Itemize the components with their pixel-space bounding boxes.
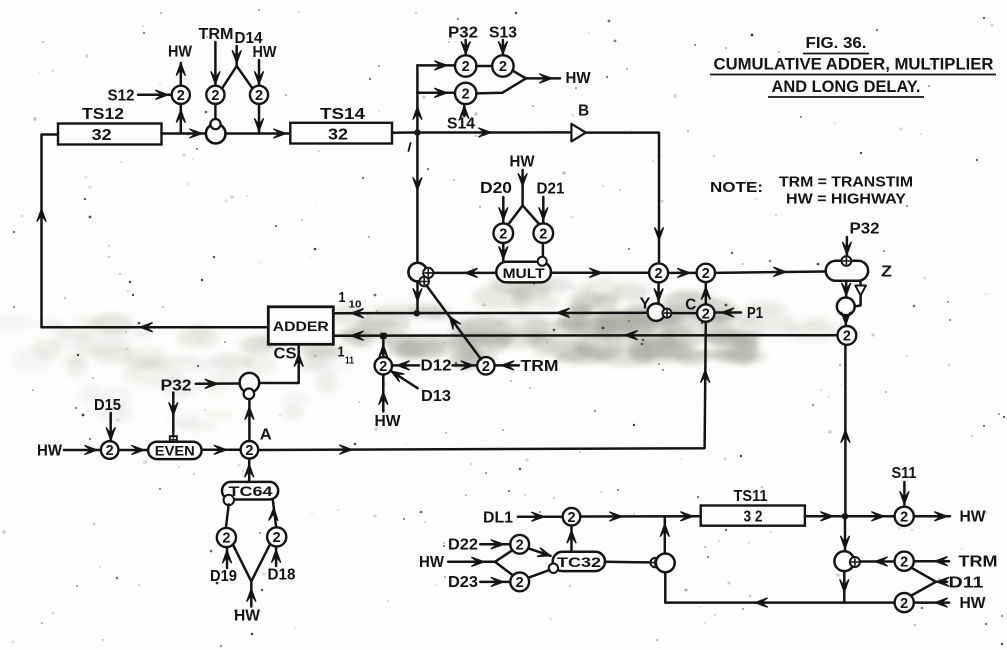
svg-text:2: 2: [655, 266, 663, 282]
svg-text:1: 1: [339, 289, 346, 306]
svg-text:NOTE:: NOTE:: [710, 179, 763, 196]
label DL1: [483, 510, 513, 527]
wire TC64 to A gate: [245, 459, 254, 482]
svg-text:2: 2: [255, 88, 263, 104]
label D15: [94, 397, 121, 414]
svg-text:TS14: TS14: [320, 106, 365, 123]
wire P32 down: [461, 40, 470, 55]
label P32 (top): [448, 25, 478, 42]
gate 2 (D22): [510, 535, 529, 554]
label HW (TS11 out): [960, 509, 987, 526]
wire P1 into C: [715, 308, 742, 317]
wire HW into D15 gate: [64, 446, 101, 455]
svg-text:2: 2: [900, 596, 908, 612]
label P32 (CS): [161, 378, 192, 395]
small circle on TC32 bottom: [549, 564, 558, 573]
gate 2 (TRM/D14): [206, 86, 224, 104]
label S12 and wire: [108, 88, 172, 105]
wire P32 branch down to EVEN: [169, 393, 178, 437]
wire TS11 out to junction: [805, 512, 842, 521]
label D22 and wire: [448, 537, 510, 554]
label P1: [747, 305, 763, 322]
wire junction up to TS11 input: [660, 516, 669, 553]
delay line TS14: [290, 106, 392, 144]
svg-text:HW: HW: [234, 608, 261, 625]
gate 2 (D20): [494, 223, 514, 243]
adder junction circle (TS12 row): [206, 124, 226, 144]
delay line TS11: [701, 488, 805, 526]
junction dot (TS11 out): [842, 513, 849, 520]
wire MULT to B gate (right): [551, 268, 649, 277]
svg-text:2: 2: [843, 329, 851, 345]
wire S13 gate to HW merge: [513, 71, 561, 83]
wire bottom-right junction down: [840, 571, 849, 603]
wire D22 gate to TC32: [528, 548, 550, 557]
wire CS into ADDER: [259, 344, 303, 383]
title line 2: [710, 56, 996, 75]
wire D14 gate to main line: [255, 104, 264, 134]
wire Z triangle branch: [855, 281, 866, 307]
junction circle (P32/CS): [240, 373, 260, 393]
label HW (TC32) and fork: [419, 551, 512, 575]
svg-text:2: 2: [900, 510, 908, 526]
label D13 and wire: [391, 371, 451, 405]
svg-text:FIG. 36.: FIG. 36.: [806, 35, 867, 52]
svg-text:TC32: TC32: [557, 555, 601, 570]
label HW (below D12 gate): [375, 413, 402, 430]
wire S12 gate to HW out: [176, 63, 185, 86]
svg-text:1: 1: [338, 344, 345, 361]
wire C down / A line corner: [258, 322, 709, 454]
gate 2 (Z out): [838, 326, 857, 345]
wire TRM gate to small circle: [214, 104, 217, 119]
svg-text:MULT: MULT: [503, 265, 545, 281]
wire adder junction to TS14: [226, 129, 291, 138]
svg-text:HW: HW: [960, 595, 987, 612]
wire mixer down to I10 line: [413, 282, 422, 310]
gate 2 (D18): [267, 527, 286, 546]
svg-text:2: 2: [222, 531, 230, 547]
svg-text:D20: D20: [480, 180, 512, 197]
label D23 and wire: [448, 574, 510, 591]
amplifier B triangle: [571, 124, 585, 142]
mixer junction circle (centre): [408, 263, 427, 282]
svg-text:D22: D22: [448, 537, 478, 554]
wire EVEN to A gate: [202, 445, 241, 454]
wire between P32 and S13 gates: [476, 65, 492, 68]
junction dot (TS14 out): [414, 129, 421, 136]
wire B to right corner and down: [586, 133, 664, 264]
label D18 and wire: [268, 548, 296, 584]
svg-text:AND LONG DELAY.: AND LONG DELAY.: [772, 78, 921, 96]
wire DL1 gate to TS11: [580, 512, 700, 521]
wire HW up into gate: [379, 375, 388, 412]
svg-text:HW = HIGHWAY: HW = HIGHWAY: [786, 191, 906, 208]
svg-text:2: 2: [482, 359, 490, 375]
label D11 and fork: [912, 568, 983, 595]
wire D15 down: [106, 413, 115, 442]
wire DL1 into gate: [518, 512, 563, 521]
gate 2 (D15): [101, 441, 119, 459]
wire TRM in: [914, 557, 949, 566]
small circle on TC64 bottom: [224, 495, 234, 505]
wire TS11 junction down: [841, 520, 850, 552]
wire junction up to branch corner: [413, 65, 422, 129]
label P32 (Z): [850, 221, 880, 238]
svg-text:HW: HW: [168, 44, 193, 61]
svg-text:TRM: TRM: [959, 554, 998, 571]
note: [710, 174, 913, 208]
junction circle Y: [648, 304, 665, 321]
wire D14 fork: [222, 46, 252, 88]
label TRM (bottom): [959, 554, 998, 571]
svg-text:C: C: [685, 297, 696, 314]
svg-text:2: 2: [106, 443, 114, 459]
junction dot on I10 line: [414, 310, 421, 317]
wire D21 gate to MULT small circle: [542, 243, 545, 257]
wire I11 from Z gate to ADDER: [333, 331, 837, 340]
wire S11 gate to HW: [914, 512, 950, 521]
gate 2 (DL1): [563, 508, 581, 526]
svg-text:HW: HW: [960, 509, 987, 526]
wire P32 down to Z: [843, 237, 852, 256]
wire junction to B amplifier: [421, 128, 572, 137]
svg-text:P1: P1: [747, 305, 763, 322]
svg-text:HW: HW: [510, 154, 536, 171]
label HW (bottom right): [960, 595, 987, 612]
wire HW in (bottom): [914, 598, 949, 607]
gate 2 (D21): [534, 223, 554, 243]
svg-text:2: 2: [273, 530, 281, 546]
wire TS14 to junction: [392, 131, 414, 134]
wire second branch to S14 gate: [417, 88, 455, 97]
wire junction down to mixer circle: [413, 136, 422, 263]
gate 2 (S12): [172, 86, 190, 104]
wire TC32 to DL1 gate: [567, 526, 576, 552]
svg-text:TS11: TS11: [734, 488, 768, 505]
svg-text:11: 11: [345, 355, 354, 367]
wire S14 gate merge: [476, 78, 526, 93]
wire D21 down: [539, 197, 548, 223]
svg-text:TRM: TRM: [199, 26, 234, 43]
gate 2 (P32 top): [455, 55, 476, 76]
svg-text:ADDER: ADDER: [273, 318, 329, 334]
wire B gate to second gate: [668, 269, 697, 278]
wire gate to Z store: [715, 267, 826, 276]
label Y: [640, 296, 651, 313]
wire TC32 to bottom-left junction: [605, 561, 651, 564]
label S13: [489, 25, 517, 42]
wire TRM into gate: [495, 361, 519, 370]
svg-text:2: 2: [539, 226, 547, 242]
wire TRM down: [211, 42, 220, 86]
oplus left of bottom-left junction: [650, 558, 659, 567]
svg-text:S11: S11: [892, 465, 917, 482]
label S14 and wire up: [447, 104, 475, 132]
svg-text:EVEN: EVEN: [155, 443, 195, 458]
label TRM (D12 row): [521, 358, 559, 375]
svg-text:2: 2: [499, 226, 507, 242]
wire Y oplus to C gate: [672, 312, 698, 315]
wire junction to S11 gate: [849, 512, 895, 521]
square junction dot on I11: [380, 333, 386, 339]
svg-text:Z: Z: [881, 264, 892, 281]
svg-text:HW: HW: [419, 554, 445, 571]
junction circle (bottom left): [656, 554, 675, 573]
svg-text:D13: D13: [421, 388, 451, 405]
oplus on Y: [663, 309, 672, 318]
gate 2 (TRM bottom): [895, 552, 914, 571]
label HW (EVEN row): [37, 443, 63, 460]
small circle on MULT top: [538, 257, 547, 266]
svg-text:P32: P32: [448, 25, 478, 42]
svg-text:2: 2: [245, 443, 253, 459]
wire fork to D20 gate: [508, 206, 523, 226]
small circle on adder junction: [210, 119, 220, 129]
scan tick: [409, 143, 411, 151]
wire MULT to mixer (left): [434, 269, 497, 278]
svg-text:D18: D18: [268, 567, 296, 584]
svg-text:32: 32: [92, 127, 112, 144]
label HW (branch out): [566, 70, 592, 87]
svg-text:32: 32: [328, 127, 348, 144]
gate 2 (S11): [895, 507, 914, 526]
gate 2 (HW bottom): [895, 593, 914, 612]
svg-text:10: 10: [349, 299, 362, 311]
svg-text:D23: D23: [448, 574, 478, 591]
svg-text:2: 2: [177, 88, 185, 104]
svg-text:HW: HW: [375, 413, 402, 430]
gate 2 (TRM/D12): [477, 357, 494, 375]
wire A gate up to small circle: [245, 399, 254, 441]
gate EVEN: [148, 442, 202, 459]
wire gate up to I11: [379, 339, 388, 357]
label HW (D14 right): [253, 44, 278, 61]
svg-text:B: B: [578, 103, 589, 120]
label D20: [480, 180, 512, 197]
svg-text:2: 2: [211, 88, 219, 104]
wire gate to EVEN: [119, 446, 149, 455]
label HW (S12 out): [168, 44, 193, 61]
svg-text:D11: D11: [949, 575, 984, 592]
wire HW down to fork: [518, 170, 527, 206]
wire Z gate down to TS11 junction: [841, 345, 850, 513]
svg-text:S12: S12: [108, 88, 135, 105]
junction circle (bottom right): [834, 551, 854, 571]
svg-text:P32: P32: [161, 378, 192, 395]
oplus on Z top: [842, 256, 852, 266]
svg-text:CS: CS: [274, 346, 297, 363]
svg-text:HW: HW: [37, 443, 63, 460]
label C: [685, 297, 696, 314]
gate 2 (C): [697, 304, 714, 322]
wire fork to D21 gate: [523, 206, 540, 225]
scan smudge band: [0, 273, 846, 431]
label D19 and wire: [210, 548, 237, 585]
wire HW down to D14 gate: [255, 60, 264, 86]
svg-text:TS12: TS12: [82, 106, 124, 123]
label HW (MULT top): [510, 154, 536, 171]
counter TC32: [553, 552, 605, 571]
label TRM (top): [199, 26, 234, 43]
gate 2 (HW/D12/D13): [375, 357, 392, 375]
label A: [260, 427, 272, 444]
wire C up to Z-row gate: [701, 282, 710, 304]
delay line TS12: [58, 106, 162, 145]
label D14: [235, 30, 263, 47]
gate 2 (B column): [649, 263, 668, 282]
wire D20 down: [499, 197, 508, 223]
wire D23 gate to TC32 small circle: [528, 570, 549, 578]
svg-text:D15: D15: [94, 397, 121, 414]
gate 2 (A): [241, 441, 259, 459]
wire P32 into junction circle: [196, 379, 240, 388]
wire top branch to P32 gate: [417, 61, 455, 70]
svg-text:A: A: [260, 427, 272, 444]
wire D20 gate to MULT: [499, 243, 508, 261]
svg-text:TRM = TRANSTIM: TRM = TRANSTIM: [779, 174, 913, 191]
svg-text:2: 2: [702, 306, 710, 322]
gate 2 (S14): [455, 83, 476, 104]
gate 2 (D23): [510, 573, 529, 592]
wire bottom return line: [665, 572, 894, 607]
wire oplus to TRM gate: [860, 557, 895, 566]
wire Z down to middle circle: [842, 281, 851, 298]
svg-text:P32: P32: [850, 221, 880, 238]
wire D18 gate up to TC64: [269, 501, 278, 528]
store Z: [826, 261, 893, 281]
label D21: [537, 181, 565, 198]
svg-text:D12: D12: [421, 358, 452, 375]
label S11 and wire: [892, 465, 917, 506]
label HW (TC64) and fork: [233, 544, 270, 624]
title FIG. 36.: [803, 35, 869, 54]
svg-text:CUMULATIVE ADDER, MULTIPLIER: CUMULATIVE ADDER, MULTIPLIER: [714, 56, 994, 74]
svg-text:D21: D21: [537, 181, 565, 198]
label D12 with arrows: [392, 358, 477, 375]
svg-text:HW: HW: [566, 70, 592, 87]
label B: [578, 103, 589, 120]
wire tap to S12 gate: [176, 104, 185, 134]
wire ADDER output loop to TS12 input: [37, 135, 268, 332]
svg-text:2: 2: [567, 510, 575, 526]
svg-text:2: 2: [900, 554, 908, 570]
wire to Z-out gate: [841, 312, 850, 326]
svg-text:HW: HW: [253, 44, 278, 61]
wire S13 down: [499, 40, 508, 55]
wire B gate down to Y: [654, 282, 663, 303]
junction circle below Z: [837, 298, 855, 316]
label CS: [274, 346, 297, 363]
label I10: [339, 289, 362, 311]
svg-text:2: 2: [499, 59, 507, 75]
oplus right of bottom-right junction: [850, 557, 860, 567]
svg-text:2: 2: [516, 575, 524, 591]
svg-text:2: 2: [516, 538, 524, 554]
svg-text:TC64: TC64: [229, 484, 274, 499]
adder ADDER box: [268, 307, 333, 345]
control square on EVEN: [170, 436, 177, 443]
svg-text:D19: D19: [210, 568, 237, 585]
svg-text:TRM: TRM: [521, 358, 559, 375]
small oplus circle 1 on mixer: [423, 268, 433, 278]
svg-text:2: 2: [702, 266, 710, 282]
svg-text:2: 2: [462, 87, 470, 103]
small oplus circle 2 on mixer: [419, 277, 429, 287]
title line 3: [768, 78, 924, 97]
svg-text:2: 2: [379, 359, 387, 375]
small circle below P32 junction: [244, 389, 255, 400]
svg-text:3 2: 3 2: [744, 509, 763, 526]
svg-text:2: 2: [462, 59, 470, 75]
gate 2 (to Z): [697, 264, 715, 282]
gate 2 (S13): [492, 55, 513, 76]
gate 2 (HW/D14): [250, 86, 268, 104]
counter TC64: [222, 482, 278, 500]
wire TS12 to adder junction: [162, 129, 207, 138]
label I11: [338, 344, 355, 367]
wire I10 from Y to ADDER: [333, 308, 647, 317]
svg-text:S14: S14: [447, 116, 475, 133]
svg-text:DL1: DL1: [483, 510, 513, 527]
gate 2 (D19): [217, 528, 236, 547]
wire TC64 small circle to D19 gate: [226, 504, 229, 528]
multiplier MULT: [496, 262, 551, 283]
wire mixer diagonal to TRM gate: [426, 285, 481, 359]
